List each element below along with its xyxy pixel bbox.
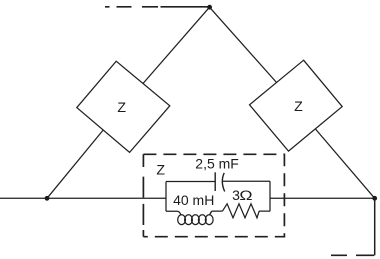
wire top node to right diamond bbox=[210, 7, 277, 82]
dashed box around impedance Z network (top, right, bottom edges) bbox=[143, 154, 284, 236]
svg-text:2,5 mF: 2,5 mF bbox=[195, 155, 239, 171]
impedance Z (right diamond) bbox=[250, 60, 343, 151]
component box top edge right segment bbox=[223, 180, 271, 182]
svg-text:Z: Z bbox=[156, 163, 165, 179]
wire bottom right horizontal bbox=[270, 197, 375, 199]
svg-text:Z: Z bbox=[117, 100, 126, 116]
svg-text:Ω: Ω bbox=[239, 189, 252, 204]
component box bottom edge segments bbox=[166, 210, 270, 212]
wire bottom-right dashed continuation bbox=[331, 254, 374, 256]
node top junction bbox=[207, 5, 212, 10]
component box right edge bbox=[269, 181, 271, 211]
svg-text:Z: Z bbox=[294, 99, 303, 115]
svg-text:40 mH: 40 mH bbox=[173, 192, 214, 208]
wire left diamond to bottom-left node bbox=[47, 130, 103, 198]
wire bottom left horizontal bbox=[0, 197, 166, 199]
dashed box left edge bbox=[142, 154, 144, 236]
node bottom-left junction bbox=[45, 196, 50, 201]
wire right vertical drop bbox=[374, 198, 376, 255]
capacitor C1 flat plate bbox=[214, 172, 216, 191]
component box left edge bbox=[165, 182, 167, 212]
inductor L1 coil loops bbox=[178, 211, 181, 215]
wire top node to left diamond bbox=[143, 7, 210, 83]
impedance Z (left diamond) bbox=[77, 61, 170, 152]
wire right diamond to bottom-right node bbox=[315, 129, 374, 198]
resistor R1 zigzag bbox=[223, 204, 260, 218]
wire top-left dashed feed line bbox=[105, 6, 210, 8]
node bottom-right junction bbox=[372, 196, 377, 201]
component box top edge left segment bbox=[166, 181, 215, 183]
capacitor C1 curved plate bbox=[222, 173, 224, 192]
